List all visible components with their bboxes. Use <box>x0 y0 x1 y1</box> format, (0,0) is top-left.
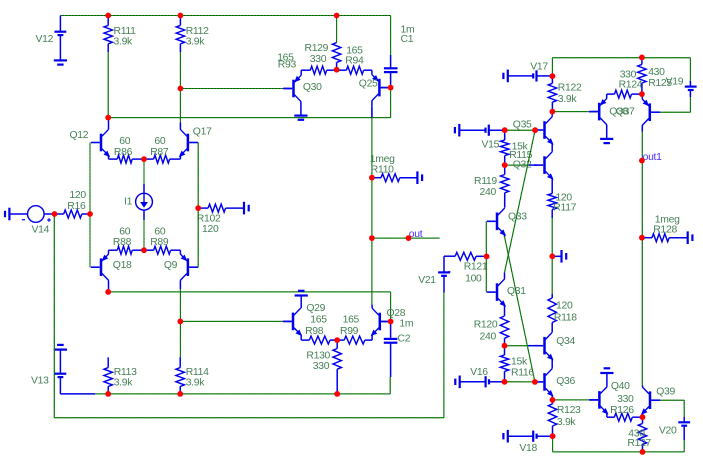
svg-text:120: 120 <box>69 190 86 201</box>
wire Q40 base <box>553 399 598 401</box>
wire I1 bottom <box>143 220 145 250</box>
label Q25 <box>359 79 378 90</box>
junction at 504.7,165.1 <box>502 162 508 168</box>
node out1 <box>643 152 663 163</box>
label Q32 <box>513 160 532 171</box>
svg-text:V14: V14 <box>32 225 50 236</box>
label R121 value <box>465 274 482 285</box>
label R99 <box>340 326 359 337</box>
voltage source V16 <box>486 376 505 387</box>
label R88 value <box>119 227 130 238</box>
svg-text:330: 330 <box>617 394 634 405</box>
ground left of V14 <box>5 208 28 221</box>
wire Q39 base to V20 <box>660 399 684 401</box>
label R126 <box>610 405 634 416</box>
label R130 value <box>313 361 330 372</box>
label V19 <box>666 77 684 88</box>
wire C1 top lead <box>390 16 392 69</box>
label R113 <box>114 367 137 378</box>
junction at 408.5,238.1 <box>406 235 412 241</box>
resistor R127 <box>638 417 646 452</box>
label V16 <box>470 367 488 378</box>
label R112 value <box>186 36 206 47</box>
resistor R123 <box>548 400 556 436</box>
label C2 <box>398 333 411 344</box>
svg-text:R88: R88 <box>113 237 132 248</box>
label R119 <box>474 176 497 187</box>
capacitor C2 <box>384 322 398 378</box>
svg-text:R94: R94 <box>345 56 364 67</box>
svg-text:3.9k: 3.9k <box>186 36 206 47</box>
label R99 value <box>343 315 360 326</box>
wire mid rail right <box>551 218 553 294</box>
label R110 <box>371 164 394 175</box>
label R123 value <box>557 417 577 428</box>
junction at 486.6,256.4 <box>484 254 490 260</box>
wire Q38 base <box>552 111 598 113</box>
label R114 <box>186 367 209 378</box>
svg-text:3.9k: 3.9k <box>557 417 577 428</box>
label R127 value <box>628 428 645 439</box>
resistor R113 <box>104 357 112 394</box>
junction at 641.9,57.4 <box>639 55 645 61</box>
junction at 337.2,393.9 <box>334 391 340 397</box>
resistor R86 <box>109 155 145 163</box>
svg-text:3.9k: 3.9k <box>114 36 134 47</box>
svg-text:240: 240 <box>480 187 497 198</box>
resistor R119 <box>501 165 509 208</box>
transistor Q18 <box>91 250 109 292</box>
transistor Q28 <box>371 305 390 341</box>
svg-text:V18: V18 <box>519 443 537 454</box>
resistor R117 <box>548 194 556 219</box>
label Q28 <box>387 308 406 319</box>
junction at 108.2,291.9 <box>105 289 111 295</box>
wire R112 column <box>179 52 181 122</box>
svg-text:60: 60 <box>119 136 130 147</box>
wire lower horizontal <box>108 291 390 293</box>
label R88 <box>113 237 132 248</box>
voltage source V20 <box>678 422 690 452</box>
voltage source V15 <box>486 125 505 136</box>
label R126 value <box>617 394 634 405</box>
resistor R94 <box>337 66 372 74</box>
label R129 value <box>310 54 327 65</box>
junction at 642.5,451.9 <box>640 449 646 455</box>
resistor R129 <box>332 43 340 70</box>
svg-text:Q32: Q32 <box>513 160 532 171</box>
label R102 value <box>202 224 219 235</box>
resistor R112 <box>176 16 184 53</box>
label R86 value <box>119 136 130 147</box>
junction at 552.6,436.2 <box>550 433 556 439</box>
resistor R16 <box>55 210 91 218</box>
wire R129 top <box>336 16 338 43</box>
ground left of V16 <box>455 376 485 389</box>
label V20 <box>659 425 677 436</box>
label Q9 <box>164 260 178 271</box>
label R113 value <box>114 378 134 389</box>
resistor R110 <box>372 174 417 182</box>
label R115 <box>509 150 532 161</box>
svg-text:R121: R121 <box>464 262 488 273</box>
svg-text:Q30: Q30 <box>303 82 322 93</box>
svg-text:R113: R113 <box>114 367 137 378</box>
transistor Q9 <box>180 250 198 289</box>
voltage source V17 <box>533 70 552 81</box>
transistor Q25 <box>372 70 390 117</box>
svg-text:Q29: Q29 <box>306 303 325 314</box>
wire V12 top lead <box>59 16 61 32</box>
voltage source V14 <box>22 206 55 223</box>
transistor Q39 <box>641 386 660 418</box>
transistor Q17 <box>179 123 198 160</box>
label R89 <box>150 237 169 248</box>
svg-text:165: 165 <box>343 315 360 326</box>
junction at 108.2,117.6 <box>105 115 111 121</box>
label Q36 <box>556 376 575 387</box>
resistor R122 <box>548 76 556 111</box>
svg-text:C2: C2 <box>398 333 411 344</box>
svg-text:V16: V16 <box>470 367 488 378</box>
ground below Q38 <box>600 139 613 143</box>
label R112 <box>186 26 209 37</box>
wire out stub <box>372 237 440 239</box>
svg-text:Q18: Q18 <box>113 260 132 271</box>
svg-text:3.9k: 3.9k <box>186 378 206 389</box>
label Q39 <box>656 387 675 398</box>
svg-text:R122: R122 <box>558 83 582 94</box>
label C1 <box>401 34 414 45</box>
junction at 535.1,130.2 <box>532 127 538 133</box>
ground right of R110 <box>417 171 422 184</box>
junction at 108.2,15.5 <box>105 13 111 19</box>
resistor R114 <box>176 357 184 394</box>
svg-text:165: 165 <box>310 315 327 326</box>
junction at 552.4,76.2 <box>550 73 556 79</box>
junction at 371.9,238.1 <box>369 235 375 241</box>
label Q31 <box>507 286 526 297</box>
transistor Q12 <box>91 118 110 160</box>
junction at 371.9,177.7 <box>369 175 375 181</box>
wire Q9 collector down <box>179 289 181 357</box>
wire Q33 base down <box>485 221 487 292</box>
wire Q32 base <box>505 164 537 166</box>
label R93 value <box>277 52 294 63</box>
resistor R87 <box>144 155 180 163</box>
wire C2 bottom <box>389 377 391 394</box>
junction at 337.2,340.1 <box>334 337 340 343</box>
junction at 336.6,69.7 <box>334 67 340 73</box>
resistor R125 <box>638 57 646 94</box>
ground right of R102 <box>244 202 249 215</box>
wire base rail left <box>89 143 91 268</box>
label R89 value <box>154 227 165 238</box>
junction at 504.5,381.8 <box>502 379 508 385</box>
svg-text:V20: V20 <box>659 425 677 436</box>
transistor Q37 <box>642 94 660 131</box>
label R110 value <box>370 154 395 165</box>
ground above Q29 <box>295 291 308 296</box>
junction at 144,159.1 <box>141 156 147 162</box>
resistor R88 <box>109 246 145 254</box>
svg-text:R114: R114 <box>186 367 209 378</box>
label Q17 <box>193 127 212 138</box>
label V18 <box>519 443 537 454</box>
svg-text:R118: R118 <box>554 312 577 323</box>
svg-text:C1: C1 <box>401 34 414 45</box>
label R123 <box>557 405 581 416</box>
svg-text:V19: V19 <box>666 77 684 88</box>
wire Q25 base to C1 node <box>381 87 391 89</box>
label R114 value <box>186 378 206 389</box>
svg-text:R99: R99 <box>340 326 359 337</box>
svg-text:1meg: 1meg <box>370 154 395 165</box>
transistor Q31 <box>487 273 506 316</box>
svg-text:R124: R124 <box>619 80 643 91</box>
junction at 180.4,88.5 <box>178 86 184 92</box>
svg-text:V15: V15 <box>482 139 500 150</box>
resistor R98 <box>301 336 337 344</box>
wire V15 to Q35 <box>505 129 535 131</box>
svg-text:V17: V17 <box>530 62 548 73</box>
svg-text:R116: R116 <box>511 367 534 378</box>
wire V19 column <box>689 58 691 87</box>
label R118 value <box>556 301 573 312</box>
svg-text:100: 100 <box>465 274 482 285</box>
resistor R102 <box>198 204 243 212</box>
wire R111 to node <box>107 52 109 118</box>
label Q34 <box>556 336 575 347</box>
label R127 <box>627 438 651 449</box>
label V17 <box>530 62 548 73</box>
junction at 198.2,208.1 <box>195 205 201 211</box>
svg-text:out1: out1 <box>643 152 663 163</box>
junction at 54.5,214 <box>52 211 58 217</box>
label R124 <box>619 80 643 91</box>
label C2 value <box>399 319 413 330</box>
svg-text:R86: R86 <box>114 147 133 158</box>
ground left of V17 <box>503 70 533 83</box>
wire C1 node down <box>390 88 392 118</box>
label Q18 <box>113 260 132 271</box>
label I1 <box>124 197 133 208</box>
ground right of R128 <box>688 231 693 244</box>
label R98 <box>305 326 324 337</box>
transistor Q29 <box>283 296 302 341</box>
label R120 value <box>480 332 497 343</box>
label R122 <box>558 83 582 94</box>
label R86 <box>114 147 133 158</box>
svg-text:R126: R126 <box>610 405 634 416</box>
label Q40 <box>611 381 630 392</box>
junction at 641.9,237.7 <box>639 235 645 241</box>
label R117 value <box>555 192 572 203</box>
label R119 value <box>480 187 497 198</box>
label V14 <box>32 225 50 236</box>
wire crossing B <box>505 237 535 382</box>
label Q37 <box>616 106 635 117</box>
label R115 value <box>512 142 529 153</box>
resistor R89 <box>144 246 180 254</box>
ground below V12 <box>54 60 67 64</box>
junction at 390.6,321.5 <box>388 319 394 325</box>
svg-text:Q39: Q39 <box>656 387 675 398</box>
label R93 <box>278 60 297 71</box>
svg-text:R93: R93 <box>278 60 297 71</box>
wire out1 rail <box>641 132 643 386</box>
resistor R99 <box>337 336 372 344</box>
transistor Q32 <box>534 152 553 194</box>
svg-text:240: 240 <box>480 332 497 343</box>
junction at 336.6,15.5 <box>334 13 340 19</box>
svg-text:R129: R129 <box>305 43 329 54</box>
resistor R121 <box>455 252 487 260</box>
wire I1 top <box>143 159 145 193</box>
svg-text:Q28: Q28 <box>387 308 406 319</box>
wire outer bottom <box>54 417 444 419</box>
ground left of V15 <box>455 124 486 137</box>
ground above V13 <box>54 345 67 350</box>
svg-text:60: 60 <box>154 136 165 147</box>
wire Q30 base <box>180 88 291 90</box>
svg-text:V13: V13 <box>31 375 49 386</box>
transistor Q34 <box>534 332 553 368</box>
junction at 552.5,399.9 <box>550 397 556 403</box>
svg-text:V12: V12 <box>36 34 54 45</box>
svg-text:1m: 1m <box>399 319 413 330</box>
label R125 value <box>648 67 665 78</box>
transistor Q35 <box>534 112 553 152</box>
label V13 <box>31 375 49 386</box>
svg-text:R130: R130 <box>306 351 330 362</box>
label Q33 <box>508 212 527 223</box>
label R98 value <box>310 315 327 326</box>
svg-text:Q37: Q37 <box>616 106 635 117</box>
junction at 552.4,111.6 <box>550 109 556 115</box>
wire top rail <box>60 15 390 17</box>
voltage source V13 <box>55 350 96 394</box>
label V15 <box>482 139 500 150</box>
ground below Q30 <box>294 116 307 120</box>
svg-text:R87: R87 <box>150 147 169 158</box>
svg-text:Q36: Q36 <box>556 376 575 387</box>
label Q30 <box>303 82 322 93</box>
label R94 <box>345 56 364 67</box>
svg-text:330: 330 <box>310 54 327 65</box>
transistor Q38 <box>589 94 607 139</box>
transistor Q36 <box>534 369 553 400</box>
svg-text:Q34: Q34 <box>556 336 575 347</box>
wire Q37 base to V19 <box>660 111 690 113</box>
voltage source V19 <box>685 87 697 113</box>
label V12 <box>36 34 54 45</box>
svg-text:60: 60 <box>154 227 165 238</box>
label R124 value <box>620 70 637 81</box>
svg-text:3.9k: 3.9k <box>558 94 578 105</box>
transistor Q40 <box>589 374 608 418</box>
label Q12 <box>70 130 89 141</box>
voltage source V18 <box>533 431 552 442</box>
label R116 <box>511 367 534 378</box>
wire Q34 base <box>505 345 537 347</box>
label R87 <box>150 147 169 158</box>
label R94 value <box>346 45 363 56</box>
wire bottom right <box>553 451 685 453</box>
svg-text:Q25: Q25 <box>359 79 378 90</box>
svg-text:Q40: Q40 <box>611 381 630 392</box>
wire V18 node down <box>552 436 554 452</box>
resistor R130 <box>333 340 341 394</box>
ground above Q40 <box>600 368 613 373</box>
svg-text:60: 60 <box>119 227 130 238</box>
resistor R111 <box>104 16 112 53</box>
label R118 <box>554 312 577 323</box>
label R121 <box>464 262 488 273</box>
junction at 180.4,15.5 <box>178 13 184 19</box>
label R111 <box>114 26 137 37</box>
label R120 <box>474 319 498 330</box>
svg-text:R127: R127 <box>627 438 651 449</box>
wire Q28 base dot link <box>381 321 391 323</box>
svg-text:Q12: Q12 <box>70 130 89 141</box>
svg-text:Q35: Q35 <box>513 120 532 131</box>
label Q35 <box>513 120 532 131</box>
svg-text:R119: R119 <box>474 176 497 187</box>
wire to Q28 base <box>390 292 392 322</box>
svg-text:3.9k: 3.9k <box>114 378 134 389</box>
wire mid horizontal <box>108 117 390 119</box>
label R87 value <box>154 136 165 147</box>
resistor R126 <box>607 413 643 421</box>
label R102 <box>197 214 221 225</box>
capacitor C1 <box>384 68 398 87</box>
svg-text:R89: R89 <box>150 237 169 248</box>
junction at 504.7,130.2 <box>502 127 508 133</box>
junction at 641.9,94.1 <box>639 91 645 97</box>
label Q38 <box>609 106 628 117</box>
wire crossing A <box>505 130 536 272</box>
wire out rail <box>371 118 373 305</box>
resistor R115 <box>501 130 509 165</box>
label R125 <box>648 78 672 89</box>
node out <box>409 229 423 240</box>
wire outer left <box>53 214 55 418</box>
label R16 value <box>69 190 86 201</box>
svg-text:330: 330 <box>313 361 330 372</box>
junction at 108.2,393.9 <box>105 391 111 397</box>
junction at 641.9,160.6 <box>639 158 645 164</box>
wire V17 drop <box>551 58 553 76</box>
svg-text:V21: V21 <box>418 275 436 286</box>
svg-text:R98: R98 <box>305 326 324 337</box>
label R117 <box>553 202 576 213</box>
label V21 <box>418 275 436 286</box>
label R111 value <box>114 36 134 47</box>
label Q29 <box>306 303 325 314</box>
svg-text:430: 430 <box>648 67 665 78</box>
svg-text:R128: R128 <box>653 224 677 235</box>
wire term stub <box>552 255 561 257</box>
resistor R93 <box>301 66 336 74</box>
resistor R116 <box>500 346 508 382</box>
junction at 390.6,87.6 <box>388 85 394 91</box>
svg-text:R117: R117 <box>553 202 576 213</box>
wire bottom left <box>95 393 390 395</box>
resistor R120 <box>500 316 508 346</box>
ground left of V18 <box>503 430 533 443</box>
svg-text:R16: R16 <box>67 201 86 212</box>
